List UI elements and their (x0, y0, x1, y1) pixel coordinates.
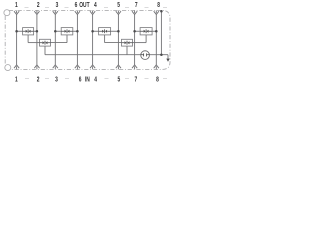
junction dot line 6 (76, 30, 79, 33)
wire center-tap stem of V2 (66, 35, 68, 43)
terminal 5 top (OUT side plug contact) (116, 1, 121, 15)
wire V4 stem to V6 (105, 42, 122, 44)
svg-text:7: 7 (135, 1, 138, 9)
terminal 8 top (OUT side plug contact) (154, 1, 161, 15)
terminal 8 bottom (IN side plug contact) (154, 65, 160, 84)
junction dot line 7 (133, 30, 136, 33)
wire line 6 (vertical through conductor) (76, 15, 78, 65)
svg-text:4: 4 (94, 1, 97, 9)
svg-text:5: 5 (117, 1, 120, 9)
wire V1 stem to V3 (28, 42, 39, 44)
terminal 1 top (OUT side plug contact) (14, 1, 19, 15)
wire V3 to V2 stem (51, 42, 68, 44)
terminal 3 top (OUT side plug contact) (53, 1, 59, 15)
terminal 7 bottom (IN side plug contact) (132, 65, 138, 84)
junction dot riser top on boundary (160, 10, 163, 13)
terminal 4 bottom (IN side plug contact) (90, 65, 97, 84)
svg-text:OUT: OUT (79, 1, 90, 9)
gas discharge tube F1 (141, 51, 150, 60)
wire ground bus (node GND bus) (45, 54, 168, 56)
terminal 2 top (OUT side plug contact) (34, 1, 40, 15)
suppressor diode V1 (lines 1-2) with leads (17, 28, 37, 35)
svg-text:6: 6 (79, 76, 82, 84)
wire V6 stem to ground bus (126, 46, 128, 55)
ground (PE earthing arrow) (166, 55, 169, 62)
svg-text:2: 2 (37, 76, 40, 84)
terminal 7 top (OUT side plug contact) (132, 1, 138, 15)
enclosure outline (dash-dot boundary) (5, 10, 170, 69)
svg-text:2: 2 (37, 1, 40, 9)
terminal 2 bottom (IN side plug contact) (34, 65, 40, 84)
svg-text:4: 4 (94, 76, 97, 84)
svg-text:1: 1 (15, 76, 18, 84)
wire line 1 (vertical through conductor) (16, 15, 18, 65)
terminal 6 top (OUT side plug contact) (75, 1, 80, 15)
svg-text:IN: IN (85, 76, 90, 84)
wire line 3 (vertical through conductor) (54, 15, 56, 65)
wire line 4 (vertical through conductor) (92, 15, 94, 65)
wire line 7 (vertical through conductor) (134, 15, 136, 65)
junction dot line 2 (36, 30, 39, 33)
wire center-tap stem of V1 (27, 35, 29, 43)
terminal 6 bottom (IN side plug contact) (75, 65, 82, 84)
wire V6 to V5 stem (133, 42, 147, 44)
suppressor diode V4 (lines 4-5) with leads (93, 28, 119, 35)
wire line 5 (vertical through conductor) (117, 15, 119, 65)
label OUT (79, 1, 90, 9)
terminal 1 bottom (IN side plug contact) (14, 65, 19, 84)
terminal-block end circle (top left) (4, 10, 10, 16)
svg-text:3: 3 (56, 1, 59, 9)
terminal 4 top (OUT side plug contact) (90, 1, 97, 15)
terminal 5 bottom (IN side plug contact) (116, 65, 121, 84)
junction dot line 4 (91, 30, 94, 33)
wire shield/earth riser (160, 11, 162, 55)
label IN (85, 76, 90, 84)
wire center-tap stem of V4 (104, 35, 106, 43)
svg-text:5: 5 (118, 76, 121, 84)
junction dot line 3 (54, 30, 57, 33)
suppressor diode V5 (lines 7-8) with leads (135, 28, 157, 35)
svg-text:1: 1 (15, 1, 18, 9)
svg-text:6: 6 (75, 1, 78, 9)
label separator dashes (25, 7, 168, 78)
junction dot line 1 (15, 30, 18, 33)
junction dot riser to bus (160, 53, 163, 56)
wire line 8 (vertical through conductor) (155, 15, 157, 65)
wire line 2 (vertical through conductor) (36, 15, 38, 65)
wire center-tap stem of V5 (145, 35, 147, 43)
svg-text:3: 3 (55, 76, 58, 84)
suppressor diode V2 (lines 3-6) with leads (55, 28, 77, 35)
junction dot line 8 (155, 30, 158, 33)
wire V3 stem to ground bus (44, 46, 46, 55)
svg-text:7: 7 (135, 76, 138, 84)
junction dot line 5 (117, 30, 120, 33)
terminal 3 bottom (IN side plug contact) (53, 65, 59, 84)
svg-text:8: 8 (156, 76, 159, 84)
svg-text:8: 8 (157, 1, 160, 9)
terminal-block end circle (bottom left) (5, 65, 11, 71)
suppressor diode V3 (pair 1-2 to ground path) (40, 39, 51, 46)
suppressor diode V6 (pair 4-5 to ground path) (122, 39, 133, 46)
